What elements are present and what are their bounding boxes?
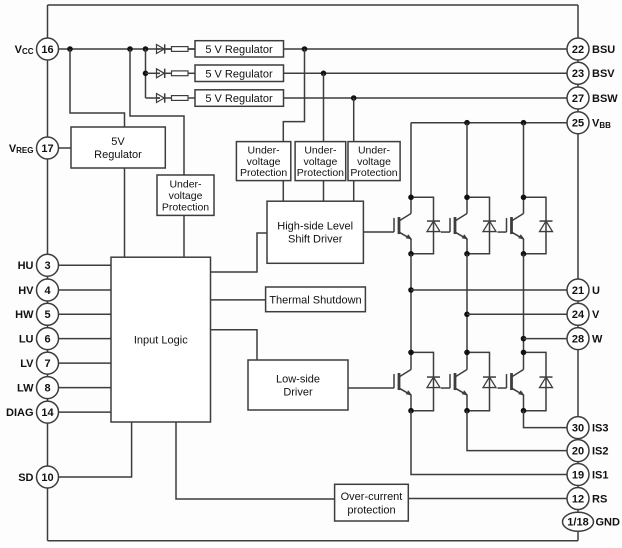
svg-text:Protection: Protection xyxy=(162,201,209,213)
svg-text:5 V Regulator: 5 V Regulator xyxy=(205,68,273,80)
pin 19 IS1 xyxy=(567,464,609,486)
wire Vcc to under-voltage protection xyxy=(130,49,184,175)
svg-text:Input Logic: Input Logic xyxy=(134,335,188,347)
pin 27 BSW xyxy=(567,87,618,109)
node Q5 collector xyxy=(464,350,470,356)
node U phase xyxy=(408,287,414,293)
svg-text:22: 22 xyxy=(572,44,584,56)
svg-text:LV: LV xyxy=(20,358,34,370)
node Vcc junction 2 xyxy=(127,46,133,52)
pin 6 LU xyxy=(19,328,59,350)
wire bootstrap row2 lead xyxy=(146,72,161,74)
pin 20 IS2 xyxy=(567,440,609,462)
wire BSW row output xyxy=(284,97,579,99)
wire VBB rail xyxy=(411,122,578,124)
wire 5V Regulator to Input Logic xyxy=(124,168,126,257)
wire BSW drop to UVP3 xyxy=(353,98,355,142)
svg-text:IS1: IS1 xyxy=(592,469,609,481)
node BSV drop junction xyxy=(321,71,327,77)
svg-text:27: 27 xyxy=(572,93,584,105)
wire right border top segment xyxy=(577,5,579,123)
svg-text:Protection: Protection xyxy=(297,167,344,179)
node Q2 collector xyxy=(464,195,470,201)
svg-text:Under-: Under- xyxy=(169,179,202,191)
diode D2 freewheel xyxy=(467,197,496,254)
wire Input Logic to over-current protection xyxy=(176,422,335,499)
svg-text:21: 21 xyxy=(572,285,584,297)
node VBB junction W-phase xyxy=(521,120,527,126)
wire under-voltage protection to Input Logic xyxy=(183,215,185,257)
block 5 V Regulator (BSW) xyxy=(195,90,284,107)
svg-text:16: 16 xyxy=(41,44,53,56)
svg-text:Low-side: Low-side xyxy=(276,373,320,385)
wire bootstrap chain vertical xyxy=(145,49,147,98)
svg-text:Protection: Protection xyxy=(240,167,287,179)
node Q6 collector xyxy=(521,350,527,356)
wire VBB to Q3 collector xyxy=(523,123,525,198)
svg-text:High-side Level: High-side Level xyxy=(277,221,353,233)
wire LU to Input Logic xyxy=(48,338,112,340)
wire right border U to W segment xyxy=(577,290,579,339)
pin 24 V xyxy=(567,303,600,325)
wire Vcc row xyxy=(48,48,196,50)
diode D5 freewheel xyxy=(467,352,496,410)
svg-text:LU: LU xyxy=(19,334,34,346)
node Q4 collector xyxy=(408,350,414,356)
svg-text:HW: HW xyxy=(15,309,34,321)
wire Input Logic to high-side driver xyxy=(211,233,268,272)
block Under-voltage Protection left xyxy=(157,175,214,215)
node W phase xyxy=(521,336,527,342)
svg-text:Regulator: Regulator xyxy=(94,149,142,161)
wire over-current protection to RS xyxy=(408,498,578,500)
svg-text:LW: LW xyxy=(17,383,34,395)
wire V phase to pin xyxy=(467,313,578,315)
pin 23 BSV xyxy=(567,62,615,84)
svg-text:V: V xyxy=(592,309,600,321)
svg-text:12: 12 xyxy=(572,493,584,505)
wire Q5 emitter to IS2 xyxy=(467,411,578,451)
svg-text:Thermal Shutdown: Thermal Shutdown xyxy=(269,294,361,306)
diode D6 freewheel xyxy=(524,352,553,410)
wire V phase column xyxy=(466,254,468,353)
pin 17 VREG xyxy=(9,137,59,159)
wire HV to Input Logic xyxy=(48,289,112,291)
wire Q6 emitter to IS3 xyxy=(524,411,579,428)
svg-text:5V: 5V xyxy=(111,136,125,148)
wire bottom border xyxy=(48,540,579,542)
svg-text:Protection: Protection xyxy=(350,167,397,179)
block Over-current protection xyxy=(335,484,409,521)
svg-text:7: 7 xyxy=(44,358,50,370)
node BSW drop junction xyxy=(351,95,357,101)
wire DIAG to Input Logic xyxy=(48,411,112,413)
pin 16 VCC xyxy=(15,38,59,60)
node bootstrap row2 junction xyxy=(143,71,149,77)
wire right border IS3 to GND segment xyxy=(577,428,579,522)
pin 25 VBB xyxy=(567,112,611,134)
node Q2 emitter xyxy=(464,251,470,257)
svg-text:17: 17 xyxy=(41,143,53,155)
wire BSU row output xyxy=(284,48,579,50)
node Q3 emitter xyxy=(521,251,527,257)
block High-side Level Shift Driver xyxy=(267,201,363,263)
block Thermal Shutdown xyxy=(266,287,366,312)
wire Input Logic to Low-side Driver xyxy=(211,330,258,360)
block 5 V Regulator (BSU) xyxy=(195,41,284,57)
transistor Q6 low-side W xyxy=(498,352,525,410)
wire top border xyxy=(48,4,579,6)
svg-text:DIAG: DIAG xyxy=(6,407,34,419)
block Under-voltage Protection 3 xyxy=(348,142,400,181)
wire U phase column xyxy=(410,254,412,353)
node Vcc junction 1 xyxy=(67,46,73,52)
node Q1 collector xyxy=(408,195,414,201)
wire VBB to Q1 collector xyxy=(410,123,412,198)
wire right border W to IS3 segment xyxy=(577,339,579,428)
wire VREG to 5V Regulator xyxy=(48,147,72,149)
svg-text:voltage: voltage xyxy=(357,156,391,168)
svg-text:voltage: voltage xyxy=(247,156,281,168)
diode D1 freewheel xyxy=(411,197,440,254)
wire BSV row output xyxy=(284,72,579,74)
wire right border VBB to U segment xyxy=(577,123,579,290)
transistor Q5 low-side V xyxy=(441,352,468,410)
svg-text:5: 5 xyxy=(44,309,50,321)
wire SD to Input Logic xyxy=(48,422,132,477)
wire BSV drop to UVP2 xyxy=(323,73,325,141)
wire U phase to pin xyxy=(411,289,578,291)
wire UVP1 to high-side driver xyxy=(282,181,284,202)
svg-text:30: 30 xyxy=(572,422,584,434)
svg-text:voltage: voltage xyxy=(169,190,203,202)
svg-text:IS3: IS3 xyxy=(592,423,609,435)
svg-text:SD: SD xyxy=(18,472,33,484)
wire bottom-right riser to GND pin xyxy=(577,522,579,541)
block Under-voltage Protection 2 xyxy=(295,142,346,181)
pin 22 BSU xyxy=(567,38,615,60)
wire HU to Input Logic xyxy=(48,264,112,266)
node Q4 emitter xyxy=(408,408,414,414)
svg-text:5 V Regulator: 5 V Regulator xyxy=(205,44,273,56)
wire left border xyxy=(47,5,49,541)
svg-text:14: 14 xyxy=(41,407,54,419)
wire bootstrap row3 lead xyxy=(146,97,161,99)
pin 4 HV xyxy=(18,279,58,301)
block Low-side Driver xyxy=(248,360,348,410)
pin 21 U xyxy=(567,279,600,301)
pin 7 LV xyxy=(20,352,58,374)
node Q1 emitter xyxy=(408,251,414,257)
block 5V Regulator main xyxy=(71,127,165,168)
pin 1/18 GND xyxy=(563,512,621,531)
svg-text:3: 3 xyxy=(44,260,50,272)
block 5 V Regulator (BSV) xyxy=(195,65,284,82)
diode bootstrap row2 and resistor xyxy=(157,69,196,78)
svg-text:BSU: BSU xyxy=(592,44,615,56)
diode D4 freewheel xyxy=(411,352,440,410)
pin 5 HW xyxy=(15,303,58,325)
pin 10 SD xyxy=(18,466,58,488)
svg-text:20: 20 xyxy=(572,445,584,457)
pin 14 DIAG xyxy=(6,401,59,423)
svg-text:HV: HV xyxy=(18,285,34,297)
svg-text:RS: RS xyxy=(592,493,607,505)
svg-text:Under-: Under- xyxy=(304,145,337,157)
svg-text:8: 8 xyxy=(44,382,50,394)
wire UVP3 to high-side driver xyxy=(353,181,355,202)
svg-text:24: 24 xyxy=(572,309,585,321)
pin 3 HU xyxy=(18,254,59,276)
pin 30 IS3 xyxy=(567,417,609,439)
svg-text:BSV: BSV xyxy=(592,68,615,80)
wire W phase column xyxy=(523,254,525,353)
transistor Q3 high-side W xyxy=(498,197,525,254)
svg-text:IS2: IS2 xyxy=(592,446,609,458)
node VBB junction V-phase xyxy=(464,120,470,126)
svg-text:10: 10 xyxy=(41,472,53,484)
wire Input Logic to Thermal Shutdown xyxy=(211,299,266,301)
svg-text:19: 19 xyxy=(572,469,584,481)
transistor Q2 high-side V xyxy=(441,197,468,254)
svg-text:4: 4 xyxy=(44,285,51,297)
pin 28 W xyxy=(567,328,603,350)
svg-text:23: 23 xyxy=(572,68,584,80)
block Under-voltage Protection 1 xyxy=(236,142,290,181)
wire UVP2 to high-side driver xyxy=(323,181,325,202)
node BSU drop junction xyxy=(302,46,308,52)
node Vcc junction 3 xyxy=(143,46,149,52)
svg-text:U: U xyxy=(592,285,600,297)
wire W phase to pin xyxy=(524,338,579,340)
wire HW to Input Logic xyxy=(48,313,112,315)
svg-text:GND: GND xyxy=(596,517,621,529)
node Q5 emitter xyxy=(464,408,470,414)
svg-text:Under-: Under- xyxy=(248,145,281,157)
diode bootstrap row3 and resistor xyxy=(157,93,196,102)
diode bootstrap row1 and resistor xyxy=(157,44,196,53)
svg-text:HU: HU xyxy=(18,260,34,272)
svg-text:1/18: 1/18 xyxy=(567,517,588,529)
wire LW to Input Logic xyxy=(48,387,112,389)
transistor Q4 low-side U xyxy=(348,352,412,410)
svg-text:6: 6 xyxy=(44,333,50,345)
wire VBB to Q2 collector xyxy=(466,123,468,198)
svg-text:voltage: voltage xyxy=(303,156,337,168)
node Q6 emitter xyxy=(521,408,527,414)
svg-text:Driver: Driver xyxy=(283,386,313,398)
svg-text:W: W xyxy=(592,334,603,346)
node V phase xyxy=(464,312,470,318)
svg-text:28: 28 xyxy=(572,333,584,345)
svg-text:protection: protection xyxy=(347,504,395,516)
block Input Logic xyxy=(111,257,211,422)
svg-text:Shift Driver: Shift Driver xyxy=(288,234,343,246)
wire Vcc to 5V Regulator xyxy=(70,49,125,127)
pin 8 LW xyxy=(17,377,59,399)
wire Q4 emitter to IS1 xyxy=(411,411,578,475)
diode D3 freewheel xyxy=(524,197,553,254)
svg-text:25: 25 xyxy=(572,118,584,130)
wire BSU drop to UVP1 xyxy=(283,49,304,142)
pin 12 RS xyxy=(567,488,607,510)
transistor Q1 high-side U xyxy=(363,197,412,254)
svg-text:BSW: BSW xyxy=(592,93,618,105)
svg-text:Under-: Under- xyxy=(358,145,391,157)
wire LV to Input Logic xyxy=(48,362,112,364)
svg-text:Over-current: Over-current xyxy=(341,491,403,503)
node Q3 collector xyxy=(521,195,527,201)
svg-text:5 V Regulator: 5 V Regulator xyxy=(205,93,273,105)
